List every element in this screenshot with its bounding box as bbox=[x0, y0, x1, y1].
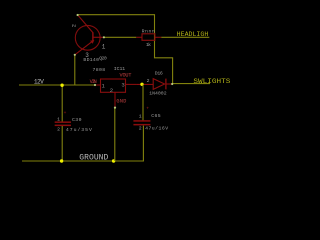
svg-text:D16: D16 bbox=[155, 71, 163, 77]
svg-text:2: 2 bbox=[147, 78, 150, 84]
pin end markers bbox=[74, 14, 174, 109]
diode D16 bbox=[147, 71, 173, 97]
wire 12V rail bbox=[19, 84, 95, 86]
wire C30 drop bbox=[61, 85, 63, 122]
resistor Rnnn 1k bbox=[136, 29, 161, 48]
svg-text:HEADLIGH: HEADLIGH bbox=[177, 31, 209, 38]
svg-text:1: 1 bbox=[102, 44, 106, 51]
svg-text:GND: GND bbox=[116, 98, 126, 104]
svg-text:1: 1 bbox=[139, 113, 142, 119]
junction 12V / C30 bbox=[60, 84, 63, 87]
wire emitter drop bbox=[74, 55, 76, 86]
wire HEADLIGH bbox=[161, 36, 209, 38]
svg-text:2: 2 bbox=[110, 87, 113, 94]
svg-text:GROUND: GROUND bbox=[79, 154, 108, 163]
wire collector top run to SWLIGHTS corner bbox=[78, 15, 172, 84]
svg-text:+: + bbox=[64, 111, 67, 116]
wire VOUT to diode bbox=[136, 83, 153, 85]
transistor Q20 BD140 bbox=[71, 15, 107, 63]
regulator IC11 7808 bbox=[90, 66, 137, 108]
svg-text:VOUT: VOUT bbox=[120, 73, 132, 79]
svg-text:SWLIGHTS: SWLIGHTS bbox=[193, 78, 230, 85]
wire regulator GND drop bbox=[114, 108, 116, 161]
svg-text:1k: 1k bbox=[146, 42, 151, 48]
junction VOUT / C65 bbox=[140, 83, 143, 86]
svg-text:3: 3 bbox=[121, 82, 124, 89]
wire SWLIGHTS bbox=[173, 83, 210, 85]
svg-text:C65: C65 bbox=[151, 113, 161, 119]
svg-text:2: 2 bbox=[57, 126, 60, 132]
svg-text:1: 1 bbox=[57, 117, 60, 123]
capacitor C65 bbox=[133, 107, 168, 132]
svg-text:Rnnn: Rnnn bbox=[142, 29, 155, 35]
junction ground / regulator GND bbox=[112, 159, 115, 162]
svg-text:1N4002: 1N4002 bbox=[149, 91, 167, 97]
wire C30 to ground bbox=[61, 126, 63, 161]
svg-text:IC11: IC11 bbox=[114, 66, 126, 72]
svg-text:Q20: Q20 bbox=[99, 56, 107, 62]
svg-text:+: + bbox=[146, 107, 149, 112]
wire C65 drop bbox=[142, 85, 144, 121]
svg-text:12V: 12V bbox=[34, 79, 44, 86]
junction ground / C30 bbox=[60, 159, 63, 162]
svg-text:2: 2 bbox=[71, 24, 77, 27]
svg-text:47u/35V: 47u/35V bbox=[66, 127, 92, 133]
svg-text:BD140: BD140 bbox=[83, 57, 99, 63]
wire base to resistor bbox=[104, 36, 136, 38]
svg-text:47u/16V: 47u/16V bbox=[145, 126, 168, 132]
svg-text:7808: 7808 bbox=[93, 67, 106, 73]
capacitor C30 bbox=[55, 111, 92, 133]
svg-text:C30: C30 bbox=[72, 117, 82, 123]
svg-text:2: 2 bbox=[139, 125, 142, 131]
ground rail with C65 riser bbox=[22, 126, 143, 161]
